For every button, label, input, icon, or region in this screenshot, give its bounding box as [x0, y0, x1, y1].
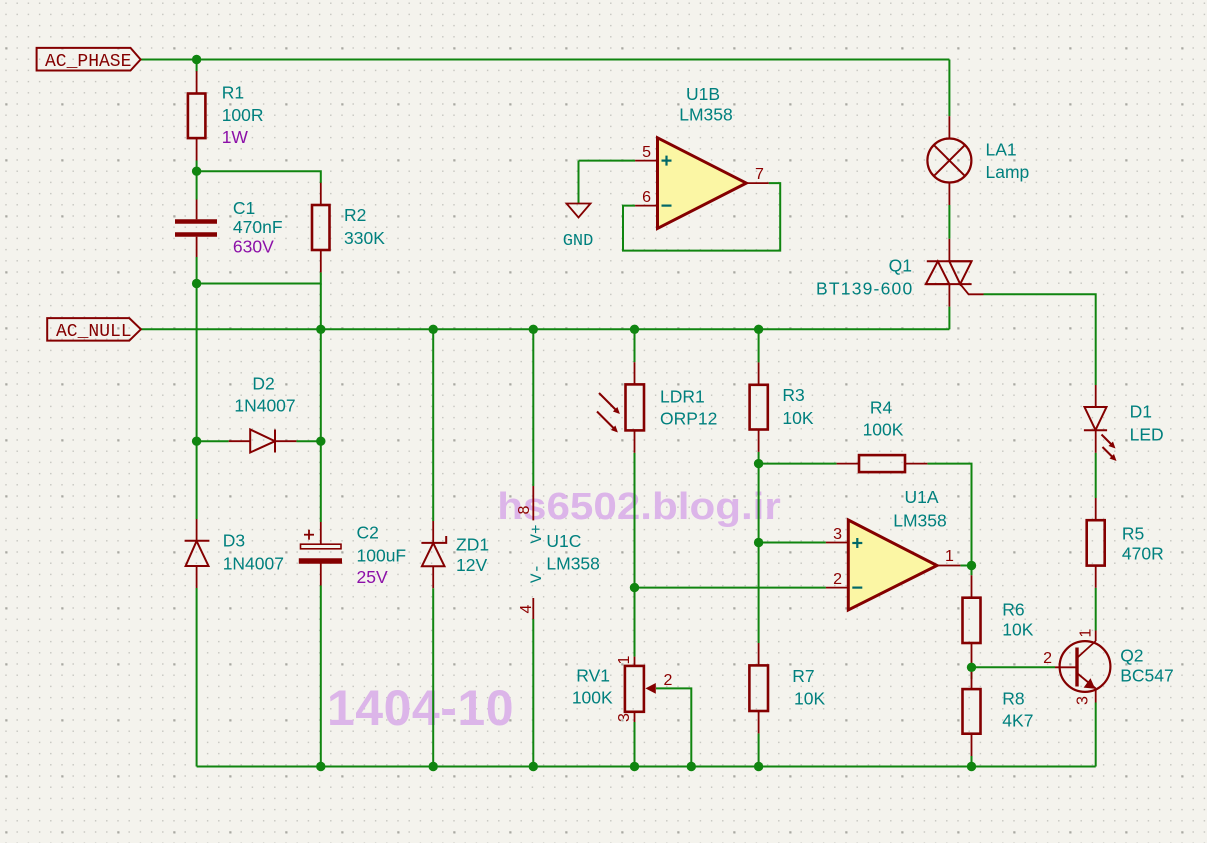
svg-text:330K: 330K	[344, 228, 385, 248]
wire Q2 collector to R5 bottom	[1095, 588, 1097, 631]
svg-text:U1A: U1A	[904, 487, 938, 507]
resistor R6	[963, 575, 1034, 665]
junction D2 left	[192, 437, 201, 446]
junction D2 right	[316, 437, 325, 446]
svg-text:LDR1: LDR1	[660, 387, 705, 407]
svg-text:AC_NULL: AC_NULL	[56, 322, 132, 342]
junction node A R1/C1/R2	[192, 167, 201, 176]
wire R6 bottom to node G	[971, 665, 973, 667]
svg-text:470R: 470R	[1122, 544, 1164, 564]
svg-text:R1: R1	[222, 83, 244, 103]
svg-text:R4: R4	[870, 398, 893, 418]
wire node G to R8 top	[971, 667, 973, 679]
svg-text:3: 3	[1075, 696, 1092, 705]
svg-text:1: 1	[945, 548, 954, 565]
junction node E R3/pin3/R7	[754, 538, 763, 547]
svg-text:12V: 12V	[456, 555, 487, 575]
svg-text:25V: 25V	[357, 567, 388, 587]
resistor R5	[1087, 498, 1164, 588]
junction node F U1A out	[967, 561, 976, 570]
svg-text:10K: 10K	[782, 408, 813, 428]
wire U1C V- to bottom rail	[532, 619, 534, 767]
junction bottom rail wiper	[687, 762, 696, 771]
svg-text:1N4007: 1N4007	[223, 554, 284, 574]
LED D1	[1084, 385, 1164, 461]
svg-text:RV1: RV1	[576, 666, 610, 686]
photoresistor LDR1	[597, 362, 717, 453]
wire node G to Q2 base	[972, 666, 1056, 668]
junction node C LDR1/RV1/pin2	[630, 583, 639, 592]
wire U1A output to node F	[960, 565, 971, 567]
svg-text:AC_PHASE: AC_PHASE	[45, 52, 131, 72]
svg-text:1: 1	[616, 655, 633, 664]
svg-text:2: 2	[833, 571, 842, 588]
lamp LA1	[927, 116, 1029, 205]
triac Q1	[816, 239, 983, 307]
svg-text:D3: D3	[223, 531, 245, 551]
svg-text:LED: LED	[1130, 425, 1164, 445]
ground symbol GND	[563, 204, 594, 252]
capacitor C1	[175, 198, 283, 257]
svg-text:2: 2	[664, 672, 673, 689]
wire R8 bottom to bottom rail	[971, 756, 973, 767]
resistor R8	[963, 667, 1034, 756]
wire R3 branch from AC_NULL	[758, 329, 760, 362]
wire R2 bottom to node B	[197, 272, 321, 283]
svg-text:100uF: 100uF	[357, 546, 407, 566]
junction bottom rail U1C	[529, 762, 538, 771]
wire node D to node E pin3 net	[758, 464, 760, 543]
junction bottom rail R8	[967, 762, 976, 771]
resistor R4	[837, 398, 928, 473]
svg-text:Lamp: Lamp	[986, 162, 1030, 182]
wire AC_PHASE top rail	[141, 59, 950, 61]
svg-text:D2: D2	[252, 374, 274, 394]
svg-text:100K: 100K	[572, 688, 613, 708]
junction bottom rail C2	[316, 762, 325, 771]
wire R3 bottom to node D	[758, 452, 760, 464]
wire U1C V+ branch from AC_NULL	[532, 329, 534, 486]
svg-text:5: 5	[642, 144, 651, 161]
wire AC_PHASE to lamp	[948, 60, 950, 117]
svg-text:630V: 630V	[233, 237, 274, 257]
junction AC_NULL/U1C branch	[529, 325, 538, 334]
svg-text:10K: 10K	[794, 689, 825, 709]
wire bottom rail	[197, 766, 1096, 768]
wire AC_NULL rail	[141, 328, 950, 330]
wire D3 bottom to bottom rail	[196, 588, 198, 767]
svg-text:3: 3	[833, 526, 842, 543]
wire D2 right stub	[296, 440, 320, 442]
wire AC_PHASE to R1 top	[196, 60, 198, 72]
wire GND drop	[578, 161, 580, 204]
wire LDR1 branch from AC_NULL	[634, 329, 636, 362]
wire R4 right to output net	[927, 464, 971, 566]
wire node A to C1 top	[196, 171, 198, 199]
svg-text:D1: D1	[1130, 402, 1152, 422]
svg-text:R5: R5	[1122, 524, 1144, 544]
junction AC_NULL/R3 branch	[754, 325, 763, 334]
resistor R1	[188, 71, 264, 160]
wire R5 top to D1 bottom	[1095, 453, 1097, 498]
wire ZD1 bottom to bottom rail	[432, 588, 434, 766]
wire C2 bottom to bottom rail	[320, 586, 322, 767]
svg-text:470nF: 470nF	[233, 217, 283, 237]
svg-text:2: 2	[1043, 650, 1052, 667]
svg-text:R6: R6	[1002, 600, 1024, 620]
svg-text:R2: R2	[344, 205, 366, 225]
transistor Q2	[1043, 628, 1174, 705]
resistor R3	[750, 362, 814, 452]
wire C1 bottom to node B	[196, 257, 198, 284]
svg-text:4: 4	[518, 604, 535, 613]
junction bottom rail RV1	[630, 762, 639, 771]
wire D1 top to triac gate	[984, 294, 1096, 385]
wire node E down to R7 top crossing pin2 net	[758, 543, 760, 644]
capacitor C2 (polarized)	[299, 522, 406, 587]
wire D2 left stub	[197, 440, 229, 442]
svg-text:LM358: LM358	[546, 554, 600, 574]
junction node D R3/R4	[754, 459, 763, 468]
svg-text:hs6502.blog.ir: hs6502.blog.ir	[497, 485, 781, 528]
wire node E to U1A pin3	[759, 542, 826, 544]
wire node A to R2 top	[197, 171, 321, 183]
op-amp U1C power unit	[516, 486, 600, 619]
op-amp U1B	[635, 84, 769, 228]
diode D3	[185, 519, 284, 588]
svg-text:6: 6	[642, 189, 651, 206]
svg-text:100R: 100R	[222, 105, 264, 125]
svg-text:BC547: BC547	[1120, 666, 1174, 686]
wire RV1 pin3 to bottom rail	[634, 722, 636, 767]
svg-text:Q2: Q2	[1120, 646, 1143, 666]
svg-text:ZD1: ZD1	[456, 535, 489, 555]
wire U1B feedback loop	[623, 183, 780, 251]
wire bottom rail up to Q2 emitter	[1095, 703, 1097, 767]
wire R7 bottom to bottom rail	[758, 733, 760, 766]
wire RV1 wiper to drop	[656, 688, 691, 766]
svg-text:1404-10: 1404-10	[327, 680, 514, 736]
svg-text:4K7: 4K7	[1002, 711, 1033, 731]
junction AC_NULL/LDR1 branch	[630, 325, 639, 334]
wire ZD1 branch from AC_NULL	[432, 329, 434, 521]
svg-text:3: 3	[616, 713, 633, 722]
svg-text:7: 7	[755, 166, 764, 183]
svg-text:R7: R7	[792, 666, 814, 686]
wire node B down to D2 left and D3	[196, 284, 198, 520]
svg-text:1N4007: 1N4007	[234, 396, 295, 416]
svg-text:U1B: U1B	[686, 84, 720, 104]
wire lamp bottom to triac MT2	[948, 205, 950, 239]
hierarchical label AC_NULL	[47, 318, 141, 342]
junction AC_NULL/ZD1 branch	[429, 325, 438, 334]
svg-text:Q1: Q1	[889, 256, 912, 276]
wire node F down to R6 top	[971, 566, 973, 576]
zener diode ZD1	[421, 521, 489, 588]
resistor R7	[749, 643, 825, 733]
wire node C down to RV1 pin1	[634, 588, 636, 657]
svg-text:ORP12: ORP12	[660, 409, 717, 429]
svg-text:R8: R8	[1002, 689, 1024, 709]
hierarchical label AC_PHASE	[37, 48, 141, 72]
potentiometer RV1	[572, 655, 673, 722]
wire node C to U1A pin2	[635, 587, 826, 589]
svg-text:10K: 10K	[1002, 620, 1033, 640]
junction node B C1/R2	[192, 279, 201, 288]
svg-text:U1C: U1C	[546, 531, 581, 551]
svg-text:C2: C2	[357, 523, 379, 543]
svg-text:C1: C1	[233, 198, 255, 218]
svg-text:BT139-600: BT139-600	[816, 279, 913, 299]
svg-text:V+: V+	[528, 524, 546, 543]
svg-text:R3: R3	[782, 385, 804, 405]
svg-text:LA1: LA1	[986, 140, 1017, 160]
svg-text:V-: V-	[528, 564, 546, 583]
svg-text:GND: GND	[563, 232, 594, 251]
wire AC_NULL corner up to triac MT1	[948, 307, 950, 330]
junction bottom rail ZD1	[429, 762, 438, 771]
svg-text:1W: 1W	[222, 127, 249, 147]
junction AC_PHASE/R1	[192, 55, 201, 64]
svg-text:LM358: LM358	[679, 105, 733, 125]
junction AC_NULL/C2 branch	[316, 325, 325, 334]
wire R1 bottom to node A	[196, 161, 198, 172]
wire LDR1 bottom to node C	[634, 453, 636, 588]
wire R2 bottom net down C2 branch	[320, 284, 322, 523]
junction bottom rail R7	[754, 762, 763, 771]
svg-text:100K: 100K	[863, 420, 904, 440]
op-amp U1A	[826, 487, 961, 610]
svg-text:LM358: LM358	[893, 511, 947, 531]
wire node D to R4 left	[759, 463, 837, 465]
svg-text:1: 1	[1078, 628, 1095, 637]
junction node G R6/R8/Q2 base	[967, 663, 976, 672]
wire U1B pin5 from GND	[579, 160, 636, 162]
resistor R2	[312, 183, 385, 273]
diode D2	[229, 374, 297, 453]
svg-text:8: 8	[516, 505, 533, 514]
